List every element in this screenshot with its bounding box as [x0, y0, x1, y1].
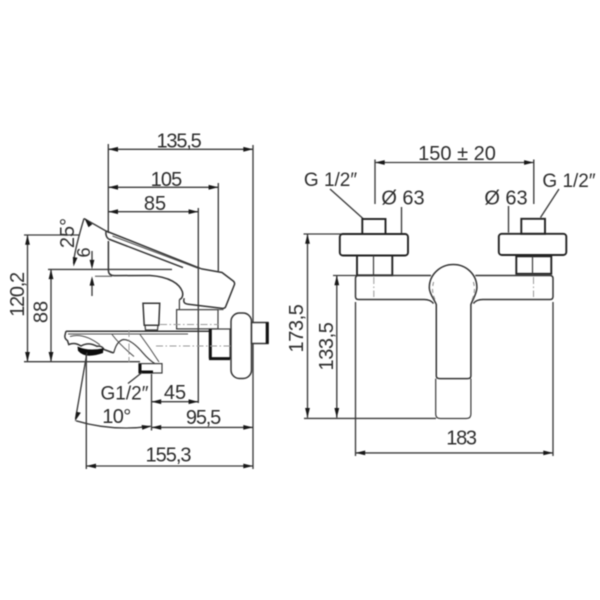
dimension 155,3	[86, 445, 253, 469]
svg-text:173,5: 173,5	[286, 304, 308, 352]
centerline spout axis	[128, 330, 130, 362]
centerline check valve	[156, 345, 233, 347]
svg-text:183: 183	[446, 428, 477, 450]
extension shower outlet vertical	[151, 374, 153, 431]
left nut	[357, 256, 392, 276]
label G 1/2 right	[541, 171, 596, 218]
25 degree angle	[57, 218, 106, 267]
dimension 88 vertical	[24, 269, 172, 361]
right centerline	[533, 277, 535, 297]
left centerline	[373, 277, 375, 297]
label diameter 63 right	[484, 188, 527, 233]
extension spout tip vertical	[85, 354, 87, 469]
svg-text:135,5: 135,5	[156, 131, 201, 153]
wall nipple side view	[252, 323, 269, 344]
10 degree angle	[75, 353, 152, 430]
dimension 105	[108, 169, 218, 271]
FRONT VIEW	[286, 143, 596, 456]
svg-text:Ø 63: Ø 63	[381, 188, 424, 210]
shower outlet bottom	[139, 364, 162, 373]
extension line left of top dims	[107, 144, 109, 233]
svg-text:10°: 10°	[102, 406, 130, 428]
dimension 85	[108, 193, 198, 403]
svg-text:45: 45	[164, 382, 186, 404]
svg-text:95,5: 95,5	[186, 407, 221, 429]
label G 1/2 left	[304, 170, 364, 219]
right flange	[499, 234, 567, 255]
svg-text:155,3: 155,3	[145, 445, 191, 467]
dimension 135,5	[108, 131, 253, 153]
svg-text:Ø 63: Ø 63	[484, 188, 527, 210]
svg-text:120,2: 120,2	[7, 272, 29, 317]
dimension 150 +/- 20	[375, 143, 534, 204]
right eccentric connector	[521, 219, 545, 234]
svg-text:133,5: 133,5	[316, 322, 338, 370]
svg-text:150 ± 20: 150 ± 20	[418, 143, 496, 165]
wall extension line right	[252, 145, 254, 469]
lever handle side view	[106, 231, 201, 269]
check valve block	[209, 329, 230, 359]
svg-text:88: 88	[31, 301, 53, 323]
svg-text:105: 105	[151, 169, 182, 191]
body lower column front view	[436, 379, 471, 419]
dimension 6 small vertical	[74, 247, 112, 296]
left eccentric connector	[362, 219, 385, 234]
diverter knob	[143, 303, 160, 330]
svg-text:25°: 25°	[57, 218, 79, 248]
svg-text:G 1/2″: G 1/2″	[542, 171, 595, 192]
escutcheon side view	[231, 313, 252, 379]
svg-text:G 1/2″: G 1/2″	[304, 170, 357, 191]
dimension 45	[152, 382, 199, 404]
right nut	[516, 256, 551, 274]
label diameter 63 left	[381, 188, 424, 234]
dimension 95,5	[152, 407, 254, 430]
label G1/2 spout	[101, 373, 149, 405]
dimension 133,5	[304, 276, 436, 419]
spout top lines	[66, 331, 210, 334]
svg-text:85: 85	[144, 193, 166, 215]
cartridge housing slanted back	[184, 269, 235, 309]
svg-text:G1/2″: G1/2″	[101, 384, 149, 405]
spout body	[65, 331, 159, 363]
spout aerator thick	[78, 347, 104, 356]
body neck / cartridge column	[108, 241, 182, 310]
body bar front view	[356, 276, 554, 304]
handle dome and stem front view	[429, 265, 477, 379]
dimension 120,2 vertical	[7, 235, 80, 362]
dimension 173,5	[286, 234, 341, 418]
left flange	[340, 234, 408, 256]
dimension 183	[356, 302, 554, 456]
valve mid body	[177, 310, 224, 329]
SIDE VIEW DIMENSIONS	[7, 131, 268, 470]
